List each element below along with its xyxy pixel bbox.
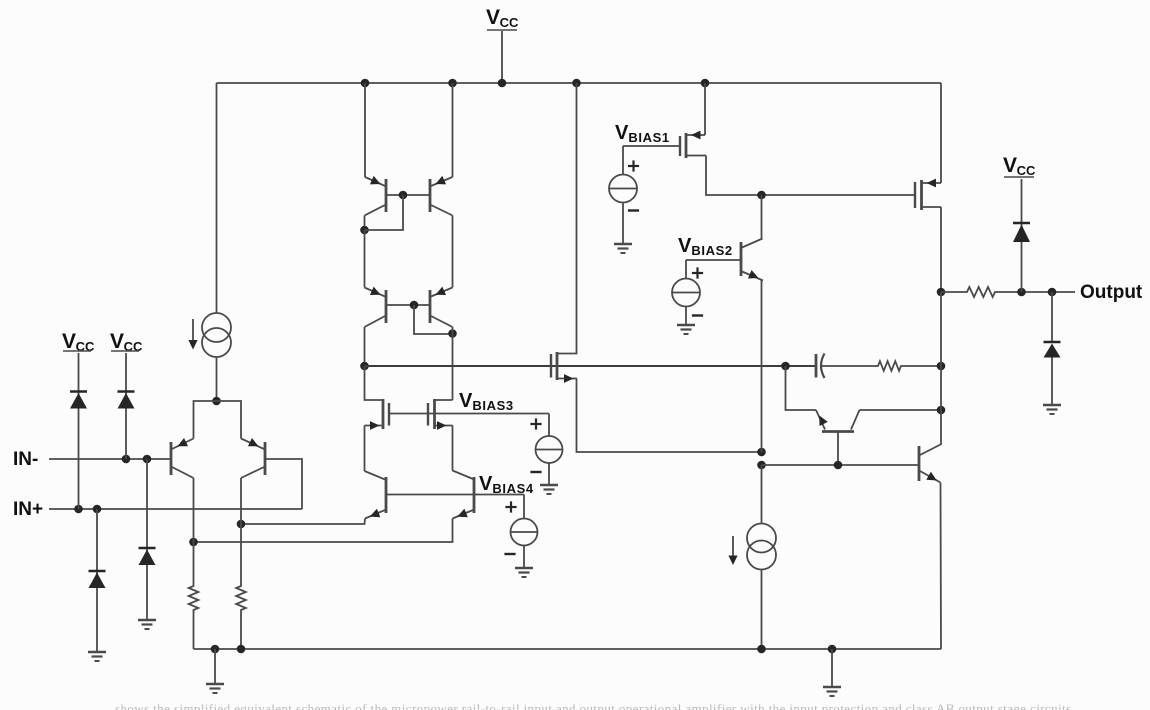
power Vcc label input right (110, 330, 143, 354)
wire output lead (941, 291, 963, 293)
transistor T1 mirror PNP top-left (365, 176, 387, 216)
wire cap to resistor (822, 365, 874, 367)
ground VBIAS3 (540, 485, 558, 494)
wire Vcc stem top (501, 31, 503, 83)
node rail junction x502 (498, 79, 507, 88)
transistor Q9 output NPN (919, 445, 941, 485)
ground output clamp (1043, 405, 1061, 414)
wire T4 diode-connect loop (414, 305, 453, 334)
ground bottom left (206, 684, 224, 693)
wire VBIAS1 gate line (623, 145, 680, 147)
wire M4 drain to rail (704, 83, 706, 135)
mosfet M1 cascode left (365, 399, 390, 430)
ground bottom right (823, 687, 841, 696)
wire Q2 load resistor drop (240, 524, 242, 583)
wire Q7 collector up (761, 195, 763, 239)
wire base line to Q9 (762, 464, 920, 466)
transistor T3 cascode PNP left (365, 287, 387, 327)
node IN+ Vcc diode junction (74, 505, 83, 514)
wire T1 collector to T3 emitter (364, 230, 366, 288)
node output ground diode junction (1048, 288, 1057, 297)
label VBIAS4 (479, 473, 534, 496)
wire current source to diff pair tail (216, 357, 218, 401)
wire rail corner to M5 source (940, 83, 942, 183)
node T1 base collector tie (399, 191, 408, 200)
label Output (1080, 282, 1143, 303)
wire M1 drain from gate node (365, 366, 382, 400)
wire M4 source to output gate line (706, 156, 915, 196)
ground IN+ clamp (88, 652, 106, 661)
wire ground stem right (831, 649, 833, 687)
label IN+ (13, 499, 43, 520)
wire T1 T2 base line (386, 194, 430, 196)
resistor R4 right degeneration (236, 583, 246, 613)
wire comp tap down to Q8 emitter (786, 366, 817, 410)
node rail junction x365 (361, 79, 370, 88)
wire Q6 emitter to Q1 collector (194, 519, 453, 543)
source VBIAS1 battery (609, 160, 639, 210)
wire gate line to VBIAS3 (389, 413, 549, 415)
source VBIAS4 battery (504, 501, 537, 554)
node IN- clamp junction (143, 455, 152, 464)
wire output to lower diode (1051, 292, 1053, 341)
wire top Vcc supply rail (217, 82, 942, 84)
ground IN- clamp (138, 620, 156, 629)
node Q2 collector junction (237, 520, 246, 529)
wire IN- input line (49, 458, 170, 460)
label VBIAS1 (615, 122, 670, 145)
wire output column lower (940, 366, 942, 445)
diode D5 output to Vcc (1013, 223, 1030, 242)
label VBIAS2 (678, 235, 733, 258)
wire current source to bottom rail (761, 570, 763, 650)
svg-text:BIAS1: BIAS1 (628, 130, 669, 145)
wire tail to Q2 emitter (217, 401, 242, 439)
node output column Q8 junction (937, 406, 946, 415)
wire Q5 emitter to Q2 collector (241, 519, 365, 525)
wire IN+ input line (49, 508, 302, 510)
wire Vcc to IN+ diode column (78, 353, 80, 509)
wire resistor to output terminal (999, 291, 1075, 293)
node compensation tap (781, 362, 790, 371)
power Vcc label output (1003, 154, 1036, 178)
transistor T4 cascode PNP right (430, 287, 453, 327)
wire R1 to output column (905, 365, 941, 367)
wire M1 source down to Q5 collector (364, 426, 366, 472)
label VBIAS3 (459, 390, 514, 413)
wire ground stem left (214, 649, 216, 684)
wire VBIAS2 to ground (685, 307, 687, 326)
wire VBIAS3 to ground (548, 463, 550, 485)
wire output column middle (940, 292, 942, 366)
ground VBIAS4 (515, 568, 533, 577)
mosfet M5 output PMOS (915, 179, 941, 210)
node rail junction x705 (701, 79, 710, 88)
transistor Q5 folded NPN left (365, 471, 387, 521)
wire Vcc to IN- diode column (125, 353, 127, 459)
caption text bottom clipped (115, 701, 1072, 710)
wire M2 source down to Q6 collector (452, 426, 454, 471)
svg-text:shows the simplified equivalen: shows the simplified equivalent schemati… (115, 701, 1072, 710)
diode D2 IN- to Vcc (118, 392, 135, 409)
node output resistor junction (937, 288, 946, 297)
node rail junction x576 (572, 79, 581, 88)
wire M5 drain to output node (940, 207, 942, 292)
capacitor C1 compensation (816, 354, 825, 379)
source VBIAS2 battery (672, 267, 703, 315)
wire gate node line to compensation (365, 365, 816, 367)
node T3 T4 base junction (410, 301, 419, 310)
wire Q8 collector to output column (860, 409, 942, 411)
svg-text:V: V (110, 330, 124, 353)
svg-text:BIAS4: BIAS4 (492, 481, 533, 496)
svg-text:V: V (678, 235, 692, 257)
mosfet M2 cascode right (428, 399, 453, 430)
wire T2 collector down (452, 216, 454, 288)
node diff pair tail (212, 397, 221, 406)
arrow current direction I2 (728, 536, 737, 565)
diode D3 ground to IN- (139, 548, 156, 565)
wire bottom ground rail (194, 648, 942, 650)
svg-text:V: V (479, 473, 493, 495)
svg-text:V: V (486, 6, 500, 29)
node IN- Vcc diode junction (122, 455, 131, 464)
wire VBIAS4 to ground (523, 546, 525, 569)
ground VBIAS1 (614, 244, 632, 253)
transistor Q2 input PNP right (241, 438, 265, 478)
node bottom rail R4 junction (237, 645, 246, 654)
node output Vcc diode junction (1017, 288, 1026, 297)
ground VBIAS2 (677, 325, 695, 334)
svg-text:V: V (62, 330, 76, 353)
svg-text:V: V (459, 390, 473, 412)
wire VBIAS3 drop (548, 414, 550, 436)
wire Q1 collector drop (193, 478, 195, 542)
wire T3 collector down to gate node (364, 327, 366, 366)
power Vcc label top (486, 6, 519, 30)
node T4 base collector tie (448, 329, 457, 338)
diode D6 ground to output (1044, 342, 1061, 358)
node class AB sense junction (757, 448, 766, 457)
wire VBIAS2 drop (685, 260, 687, 279)
wire rail to T1 emitter (364, 83, 366, 177)
source VBIAS3 battery (530, 418, 562, 472)
resistor R3 left degeneration (189, 583, 199, 613)
mosfet M4 bias PMOS (680, 131, 706, 158)
wire IN+ to ground clamp (96, 509, 98, 652)
node gate drive junction (360, 362, 369, 371)
wire R3 to bottom rail (193, 613, 195, 649)
svg-text:IN-: IN- (13, 449, 38, 470)
node output column comp junction (937, 362, 946, 371)
wire T1 collector to node (364, 216, 366, 231)
node IN+ clamp junction (93, 505, 102, 514)
wire Q2 base loop to IN+ (266, 459, 302, 509)
resistor R2 output (963, 287, 999, 297)
node rail junction x452 (448, 79, 457, 88)
node sense to base junction (757, 461, 766, 470)
wire Q7 emitter down to sense node (761, 281, 763, 453)
mosfet M3 second stage (551, 83, 577, 383)
wire Q7 base to VBIAS2 (686, 259, 741, 261)
wire T1 diode-connect loop (365, 195, 404, 230)
svg-text:IN+: IN+ (13, 499, 43, 520)
wire M3 source down and right (577, 379, 762, 453)
svg-text:BIAS2: BIAS2 (691, 243, 732, 258)
wire R4 to bottom rail (240, 613, 242, 649)
svg-text:V: V (1003, 154, 1017, 177)
transistor Q1 input PNP left (171, 438, 194, 478)
node gate line junction (757, 191, 766, 200)
wire lower diode to ground (1051, 358, 1053, 406)
transistor Q8 AB control NPN (815, 410, 859, 465)
wire T3 T4 base line (386, 304, 430, 306)
diode D4 ground to IN+ (89, 571, 106, 588)
wire sense node to current source (761, 465, 763, 524)
power Vcc label input left (62, 330, 95, 354)
node bottom rail right ground junction (828, 645, 837, 654)
wire T2 emitter to rail (452, 83, 454, 177)
wire Q9 emitter to bottom rail (940, 483, 943, 650)
svg-text:Output: Output (1080, 282, 1143, 303)
current source I2 class AB (747, 524, 776, 570)
wire tail to Q1 emitter (194, 401, 217, 439)
resistor R1 compensation (874, 361, 905, 371)
svg-text:BIAS3: BIAS3 (472, 398, 513, 413)
diode D1 IN+ to Vcc (70, 392, 87, 409)
node T1 collector junction (360, 226, 369, 235)
arrow current direction I1 (188, 319, 197, 350)
label IN- (13, 449, 38, 470)
transistor T2 mirror PNP top-right (430, 176, 453, 216)
node Q8 base junction (834, 461, 843, 470)
wire left column from rail to current source (216, 83, 218, 313)
svg-text:V: V (615, 122, 629, 144)
node Q1 collector junction (189, 538, 198, 547)
wire IN- to ground clamp (146, 459, 148, 620)
wire T4 collector to M2 drain (452, 327, 454, 400)
wire VBIAS4 drop (523, 495, 525, 519)
wire Q2 collector drop (240, 478, 242, 524)
wire VBIAS1 source drop (622, 146, 624, 175)
svg-text:CC: CC (500, 15, 519, 30)
node bottom rail ground junction (211, 645, 220, 654)
current source I1 tail bias (202, 313, 231, 357)
transistor Q6 folded NPN right (453, 471, 475, 521)
wire Q1 load resistor top lead (193, 542, 195, 583)
wire VBIAS1 to ground (622, 203, 624, 245)
transistor Q7 class AB NPN (741, 239, 763, 283)
wire Vcc to output diode (1021, 179, 1023, 292)
svg-text:CC: CC (1017, 163, 1036, 178)
node bottom rail CS2 junction (757, 645, 766, 654)
wire Q5 Q6 base line to VBIAS4 (386, 494, 524, 496)
